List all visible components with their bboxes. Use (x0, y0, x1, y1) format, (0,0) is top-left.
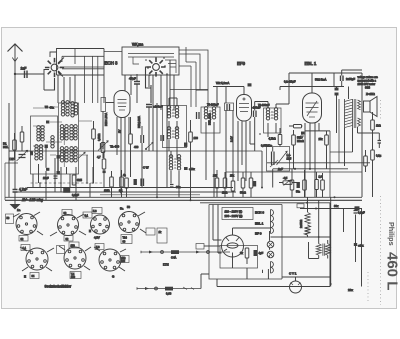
svg-text:ECH 3: ECH 3 (105, 61, 118, 66)
cap pair mid2 (141, 179, 144, 187)
resistor R1 REL (13, 133, 17, 160)
cap left IFT2 (197, 112, 200, 119)
bus y187 (27, 187, 233, 189)
bus y200 main (5, 199, 362, 201)
bus y197 (5, 196, 362, 198)
volume pot left (98, 141, 108, 151)
wire box to bus (217, 268, 247, 287)
IFT1 top coils (167, 106, 178, 118)
svg-text:C Y 1: C Y 1 (289, 272, 297, 276)
socket1 left box (6, 214, 14, 224)
svg-text:400: 400 (134, 145, 139, 149)
bus y192.5 (15, 191, 236, 193)
svg-text:50Ω 5mA: 50Ω 5mA (315, 78, 326, 82)
dial cord line 1 (141, 250, 230, 259)
svg-text:5a: 5a (120, 207, 124, 211)
coil M2 (60, 125, 68, 145)
wire antenna to grid (15, 70, 49, 91)
svg-text:0M5: 0M5 (77, 179, 82, 182)
capacitor 4.7nF (13, 190, 18, 193)
psu lamp wires (233, 231, 270, 279)
svg-text:M2+Ω: M2+Ω (297, 140, 304, 143)
coil B2 (60, 147, 68, 167)
junction dots (318, 207, 357, 285)
EF9 base wires (238, 121, 255, 181)
rotated label REL2MA (208, 113, 212, 125)
right cluster resistor (92, 121, 96, 183)
bus capacitor block (63, 188, 70, 193)
svg-text:5,8: 5,8 (96, 246, 100, 249)
socket 7 (94, 247, 126, 271)
svg-text:0,1µF: 0,1µF (358, 211, 365, 215)
cap right ift1 (184, 143, 187, 147)
svg-text:WK,ma: WK,ma (132, 43, 143, 47)
svg-text:180: 180 (71, 245, 76, 248)
socket1 bottom box (19, 236, 28, 242)
svg-text:90%: 90% (365, 87, 371, 90)
resistor row mid 2 (120, 170, 124, 197)
svg-text:460 L: 460 L (383, 252, 400, 290)
socket 5 (20, 247, 54, 271)
vertical drops (308, 197, 362, 286)
wire (255, 102, 268, 152)
right cluster resistor 2 (101, 111, 105, 158)
svg-text:Z=25Ω: Z=25Ω (366, 92, 376, 96)
tube EBL1 (303, 93, 322, 123)
svg-text:EBL 1: EBL 1 (305, 61, 317, 66)
heater winding (271, 262, 274, 274)
bus y194.5 (100, 194, 200, 196)
cap 4uF (254, 250, 258, 256)
rotated label REV (137, 116, 141, 128)
cap f5 (46, 168, 49, 171)
resistor 4.7k left (102, 151, 106, 171)
top wire y73 (289, 73, 362, 197)
coil B3 (70, 147, 77, 162)
filter wires horizontals (33, 107, 92, 156)
right small resistor (364, 150, 368, 172)
svg-text:0,1-2/2µF: 0,1-2/2µF (284, 80, 296, 84)
rotated label REC (104, 113, 108, 126)
grid cap box left (101, 98, 114, 112)
rotated label LW (30, 151, 34, 155)
detector transformer box (264, 108, 282, 133)
transformer wires (309, 237, 328, 259)
cap f6 (57, 171, 60, 175)
mid boxes row1 (146, 228, 167, 243)
AF row resistor 4 (321, 173, 325, 197)
cap dark mid (134, 179, 137, 185)
wire w-e (330, 131, 353, 197)
grid resistor horizontal (289, 125, 303, 128)
IFT2 coils (204, 107, 215, 119)
svg-text:30x: 30x (176, 185, 181, 189)
AF row resistor 1 (290, 169, 294, 197)
ground (10, 192, 21, 210)
caps near speaker (335, 88, 339, 91)
top bus wires right (170, 47, 208, 107)
IFT1 caps (161, 135, 164, 141)
cap blob left (103, 171, 106, 174)
secondary coil 2 (358, 118, 361, 126)
wires to bus (33, 171, 90, 200)
svg-text:200 - 220V (2): 200 - 220V (2) (225, 214, 243, 218)
left long vertical (8, 103, 10, 197)
band filter box A (31, 116, 58, 174)
volume pot box (267, 147, 290, 172)
svg-text:REL: REL (3, 145, 9, 149)
cap blob screen (248, 83, 252, 86)
osc padder transformer (169, 155, 180, 170)
grid hook wire (146, 67, 152, 103)
antenna (8, 44, 23, 74)
long vertical feedback (338, 99, 340, 163)
rotated label 0,5M (98, 133, 101, 141)
bus y208.5 (300, 208, 362, 210)
AF row pot arrow (284, 180, 290, 185)
rotated label L1V (230, 136, 234, 142)
filter transformer right winding (325, 244, 330, 256)
cathode resistor (325, 131, 329, 169)
dial lamp 2 (267, 251, 274, 258)
svg-text:EF 9: EF 9 (255, 232, 262, 236)
dropper resistor spring 2 (305, 225, 311, 235)
cap on right bus (355, 206, 360, 210)
oscillator coil box (122, 47, 179, 75)
coil small (51, 136, 54, 148)
svg-text:100: 100 (71, 276, 76, 279)
oscillator verticals (125, 60, 174, 187)
svg-text:0,68: 0,68 (166, 292, 172, 296)
wire (336, 87, 338, 134)
svg-text:0,1µ: 0,1µ (376, 154, 382, 158)
svg-text:+10x: +10x (189, 167, 195, 171)
svg-text:2x50pF: 2x50pF (346, 77, 355, 81)
pot arrow 2 (145, 142, 153, 150)
socket 2 (50, 214, 86, 236)
secondary coil 1 (358, 100, 361, 110)
wire (342, 70, 362, 87)
svg-text:T14: T14 (123, 237, 128, 240)
cap 10nF (43, 176, 58, 180)
IFT1 mid coils (167, 127, 178, 139)
right stage resistor 1k (371, 112, 375, 150)
sun2 dots (145, 57, 168, 76)
svg-text:4,5V: 4,5V (94, 236, 100, 240)
socket2 right box (83, 212, 92, 218)
wire (226, 111, 233, 188)
cap 0.1uF right (354, 211, 358, 214)
capacitor 47pF (134, 82, 140, 85)
coil T2 (71, 102, 78, 117)
wire to cap (136, 74, 138, 103)
resistor 47k (278, 128, 282, 147)
svg-text:1nF: 1nF (21, 67, 27, 71)
socket 1a (13, 212, 43, 235)
svg-text:1kΩ: 1kΩ (376, 124, 381, 128)
output transformer primary (345, 99, 353, 128)
filter box (220, 246, 258, 269)
wires ift1 (169, 98, 177, 160)
capacitor 1nF (25, 71, 28, 79)
socket6 top box (69, 242, 79, 248)
svg-text:Wk 5,2mA: Wk 5,2mA (216, 81, 229, 85)
cap 0.1uF det (254, 111, 257, 118)
svg-text:4,7: 4,7 (97, 155, 101, 159)
switch contact dots (39, 182, 94, 184)
wire CY1 to bus (295, 277, 297, 281)
wires IFT2 (206, 90, 217, 197)
cap below padder (170, 185, 174, 188)
resistor row mid 3 (125, 178, 129, 197)
svg-text:20x: 20x (348, 288, 353, 292)
svg-text:47pF: 47pF (129, 77, 136, 81)
svg-text:KTH: KTH (163, 263, 169, 267)
wire left (5, 151, 31, 200)
loudspeaker (364, 97, 378, 117)
junction (14, 73, 16, 75)
svg-text:+100nF: +100nF (153, 105, 163, 109)
resistor 50k (292, 130, 296, 169)
wire (141, 126, 143, 187)
svg-text:REL,2MA: REL,2MA (208, 113, 212, 125)
svg-text:100: 100 (194, 136, 199, 140)
wire psu bottom (217, 286, 330, 288)
resistor row mid 1 (110, 171, 114, 197)
cap 70-100nF left (227, 104, 230, 111)
svg-text:EF9: EF9 (237, 61, 246, 66)
mains entry box (196, 244, 220, 250)
dotted ticks top (380, 100, 382, 120)
resistor horizontal right (279, 181, 297, 185)
svg-text:C4A: C4A (171, 256, 176, 260)
wire (103, 173, 105, 188)
band arrow (301, 132, 304, 139)
long line 162.8 (267, 162, 370, 164)
wire dropper down (271, 235, 331, 237)
coil B1 (35, 145, 43, 160)
screen wire (196, 87, 244, 108)
socket5 bottom boxes (30, 273, 39, 279)
filter transformer core (323, 244, 325, 256)
svg-text:4µF: 4µF (259, 251, 264, 255)
socket7 top box (95, 244, 104, 250)
resistor row a (215, 170, 219, 197)
sun1 diagonal electrodes (58, 58, 64, 77)
AF row resistor 3 (315, 172, 319, 197)
oscillator triode (sun) (146, 57, 165, 76)
svg-text:REV,4MA: REV,4MA (137, 116, 141, 128)
screen wire 2 (280, 87, 344, 91)
diode load pot (270, 151, 287, 167)
wires det (268, 102, 289, 138)
rotated label 2V (118, 129, 122, 133)
coil M3 (70, 125, 77, 140)
sun1 accents (49, 78, 55, 90)
svg-text:4,7nF: 4,7nF (19, 188, 27, 192)
socket 3 (91, 215, 110, 234)
svg-text:70-100nF: 70-100nF (207, 103, 219, 107)
socket3 top box (92, 208, 102, 214)
dial lamp 1 (267, 241, 274, 248)
resistor right of ift1 (189, 120, 193, 200)
switch box left of EF9 (225, 103, 234, 111)
svg-text:Philips: Philips (387, 222, 396, 246)
transformer core (354, 99, 356, 128)
socket5 top left box (21, 245, 30, 251)
det coils (266, 108, 277, 120)
dropper resistor spring 1 (305, 213, 311, 225)
capacitor 100nF (146, 105, 152, 108)
svg-text:0,5MΩ: 0,5MΩ (98, 133, 101, 141)
socket7 right box (120, 256, 129, 264)
tube list (255, 211, 264, 236)
tuning capacitor LW (17, 150, 28, 161)
resistor ant 2 (20, 126, 24, 151)
AF line (273, 168, 348, 170)
rotated label 2x600 (300, 219, 303, 228)
svg-text:REC LI/4A: REC LI/4A (104, 113, 108, 126)
cap 2 (335, 93, 339, 96)
wires padder (171, 151, 179, 197)
dial cord line 2 (137, 274, 209, 296)
antenna coil box (50, 49, 104, 104)
wire tone (358, 133, 380, 148)
transformer primary winding (271, 210, 274, 234)
resistor row c (231, 181, 235, 197)
svg-text:2V: 2V (118, 129, 122, 133)
tube ECH3 envelope (114, 91, 130, 118)
IF transformer 2 box (201, 107, 220, 133)
hexode section (sun) (45, 58, 64, 77)
svg-text:5.8: 5.8 (93, 210, 97, 213)
coil M1 (37, 126, 44, 141)
right stage resistor 2 (371, 150, 375, 197)
cap 68x (45, 106, 49, 109)
filter transformer left winding (316, 244, 321, 256)
wire right bottom (282, 203, 330, 287)
svg-text:50n: 50n (296, 191, 301, 194)
socket2 top box (62, 210, 72, 216)
svg-text:1MΩ: 1MΩ (222, 192, 227, 195)
resistor row d (241, 172, 245, 197)
pickup connector CY1 (290, 281, 302, 293)
svg-text:4,7kΩ: 4,7kΩ (269, 137, 276, 141)
socket4 bottom box (121, 235, 132, 244)
mains text box (222, 208, 253, 220)
cap f3 (45, 145, 48, 149)
resistor row e (249, 172, 253, 197)
note text top right (358, 76, 379, 90)
IF transformer 1 box (163, 106, 187, 148)
AF row cap (297, 182, 300, 188)
svg-text:1a: 1a (17, 208, 21, 212)
tube ECH3 base wires (117, 117, 129, 193)
cap right padder (184, 167, 188, 170)
svg-text:100: 100 (121, 260, 126, 263)
socket 4 (119, 212, 147, 234)
socket6 left box (57, 246, 65, 254)
wire pot down (272, 147, 274, 188)
tube EF9 (237, 95, 252, 122)
svg-text:30x: 30x (334, 204, 339, 208)
dotted separator right (380, 196, 382, 305)
pot arrow right cluster (78, 152, 85, 158)
svg-text:EBL 1: EBL 1 (255, 222, 264, 226)
AF row resistor 2 (303, 170, 307, 197)
cap 10x (354, 243, 357, 246)
svg-text:LW: LW (30, 151, 34, 155)
junction dots AF (294, 168, 311, 170)
AVC line (9, 150, 262, 152)
avc wires (260, 133, 262, 188)
resistor 4n400 (129, 117, 133, 177)
labels row (213, 175, 246, 195)
socket2 bottom box (64, 236, 73, 242)
svg-text:0,1µF: 0,1µF (72, 193, 79, 197)
resistor row b (223, 172, 227, 197)
power box (209, 205, 282, 280)
svg-text:+10x: +10x (358, 245, 364, 248)
band switch dashed (31, 182, 105, 184)
small box right top (297, 204, 304, 208)
svg-text:12,5: 12,5 (287, 158, 292, 161)
cap 2x50 (341, 76, 344, 82)
coil T1 (61, 101, 69, 116)
wires box verticals (58, 75, 75, 103)
svg-text:E: E (89, 229, 91, 233)
wire between boxes (104, 51, 122, 53)
svg-text:LW: LW (10, 157, 14, 161)
cap dark row (253, 181, 256, 187)
psu top wires (213, 205, 271, 254)
filter outputs (39, 148, 94, 183)
svg-text:0,1: 0,1 (85, 215, 89, 218)
socket6 bottom box (70, 272, 81, 280)
misc verticals mid (153, 103, 157, 197)
svg-text:1,1: 1,1 (23, 247, 27, 250)
svg-text:2x600Ω: 2x600Ω (300, 219, 303, 228)
svg-text:Sockelschaltbilder: Sockelschaltbilder (45, 285, 72, 289)
svg-text:T1-400: T1-400 (110, 145, 120, 149)
svg-text:-0,5: -0,5 (283, 177, 288, 180)
tone capacitor (378, 141, 382, 144)
capacitor pair mid (141, 135, 144, 143)
dotted vertical bottom right (367, 272, 369, 302)
cap f2 (46, 121, 49, 124)
resistor 0M5 (72, 175, 82, 185)
socket 6 (59, 246, 91, 270)
wires transformer down (345, 87, 358, 167)
long line 172 (226, 171, 362, 173)
EBL1 base wires (305, 123, 330, 197)
bus y202.5 (200, 202, 330, 204)
resistor psu (245, 248, 249, 264)
svg-text:ECH 3: ECH 3 (255, 211, 264, 215)
svg-text:50kΩ: 50kΩ (240, 192, 246, 195)
rectifier tube (222, 235, 244, 257)
cap above 50k (301, 132, 304, 135)
svg-text:C W: C W (143, 166, 149, 170)
junction dots bus (120, 187, 336, 210)
band filter box B (59, 103, 79, 174)
svg-text:E: E (24, 275, 26, 279)
antenna down lead (14, 74, 16, 189)
wire (148, 107, 150, 151)
cap f4 (57, 155, 60, 159)
